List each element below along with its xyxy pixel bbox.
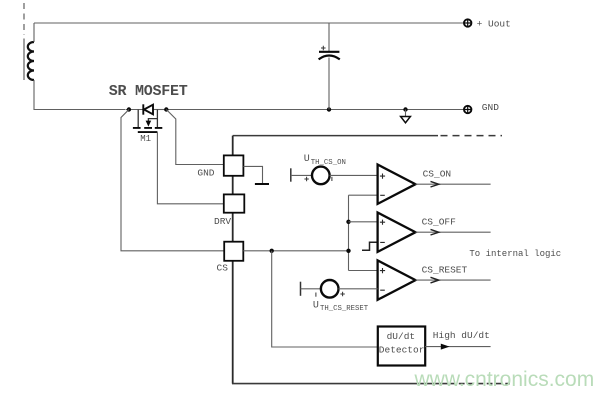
capacitor C bottom plate (curved) — [319, 56, 340, 60]
transistor M1 drain lead — [137, 110, 139, 128]
svg-text:U: U — [304, 154, 310, 165]
svg-text:+ Uout: + Uout — [477, 19, 511, 30]
svg-text:TH_CS_RESET: TH_CS_RESET — [320, 305, 369, 313]
source V_TH_CS_RESET left bar — [300, 282, 302, 296]
svg-text:GND: GND — [482, 102, 499, 113]
ground tick near GND pin — [243, 166, 262, 183]
transistor M1 gate bar — [138, 131, 158, 133]
node cap dot — [327, 107, 331, 111]
wire bus to CS_OFF + input — [349, 221, 378, 223]
op-amp CS_RESET comparator — [378, 260, 416, 299]
wire bus vertical — [348, 195, 350, 270]
svg-text:CS_OFF: CS_OFF — [422, 217, 457, 228]
node drain dot — [127, 107, 131, 111]
wire CS branch down to detector — [272, 251, 378, 347]
svg-text:CS_RESET: CS_RESET — [422, 264, 468, 275]
IC boundary top dashed continuation — [441, 135, 503, 137]
wire CS_ON output — [416, 183, 491, 185]
step symbol at CS_OFF - input — [362, 242, 378, 250]
svg-text:Detector: Detector — [379, 345, 425, 356]
wire bar to reset source circle — [301, 288, 321, 290]
transistor M1 source lead — [156, 110, 158, 128]
op-amp CS_ON comparator — [378, 165, 416, 204]
wire detector output — [425, 346, 490, 348]
wire CS pin to bus — [243, 250, 348, 252]
capacitor C top plate — [319, 51, 339, 53]
wire source to GND pin — [166, 110, 224, 165]
transistor M1 body hook — [148, 119, 157, 123]
svg-text:U: U — [313, 300, 319, 311]
wire bus to CS_RESET + input — [349, 270, 378, 272]
terminal GND — [464, 106, 471, 113]
IC boundary bottom line — [232, 383, 448, 385]
wire rail between diode and right dot — [153, 109, 167, 111]
source V_TH_CS_ON plus — [304, 177, 308, 181]
node source dot — [164, 107, 168, 111]
svg-text:High dU/dt: High dU/dt — [433, 330, 490, 341]
node bus dot lower — [346, 249, 350, 253]
transistor M1 body arrow — [146, 121, 152, 127]
watermark www.cntronics.com — [415, 368, 595, 392]
transformer core line — [23, 39, 25, 81]
node CS branch dot — [270, 249, 274, 253]
wire top-left vertical (coil to top rail) — [33, 23, 35, 42]
svg-text:SR MOSFET: SR MOSFET — [109, 83, 188, 100]
IC pin chain vertical — [232, 136, 234, 384]
inductor L secondary winding — [28, 42, 34, 80]
wire bus to CS_ON - input — [349, 194, 378, 196]
wire CS_RESET output — [416, 279, 491, 281]
svg-text:dU/dt: dU/dt — [387, 331, 416, 342]
pin box DRV — [224, 194, 245, 212]
transistor M1 channel contacts — [133, 127, 162, 129]
arrow detector output — [441, 344, 450, 350]
capacitor C plus sign — [321, 46, 326, 51]
svg-text:To internal logic: To internal logic — [469, 249, 561, 259]
transformer core dashed continuation — [23, 3, 25, 35]
diode D body (triangle) — [144, 105, 153, 115]
diode D body (cathode bar) — [142, 104, 144, 114]
ground symbol on rail — [405, 110, 407, 117]
capacitor C wire lower — [328, 58, 330, 110]
wire bar to source circle — [291, 174, 311, 176]
wire source to CS_ON + input — [330, 174, 378, 176]
wire top rail to Vout — [34, 22, 464, 24]
source V_TH_CS_RESET minus tick — [315, 293, 317, 297]
terminal + Vout — [464, 19, 471, 26]
pin box CS — [224, 242, 243, 261]
source V_TH_CS_RESET plus — [340, 292, 344, 296]
svg-text:CS_ON: CS_ON — [423, 168, 452, 179]
pin box GND — [224, 155, 244, 175]
wire drain to CS pin — [121, 110, 224, 251]
source V_TH_CS_RESET circle — [321, 280, 339, 298]
node gnd-symbol dot — [403, 107, 407, 111]
op-amp CS_OFF comparator — [378, 213, 416, 252]
svg-text:DRV: DRV — [214, 216, 231, 227]
IC boundary bottom dashed continuation — [450, 383, 511, 385]
node bus dot upper — [346, 220, 350, 224]
source V_TH_CS_ON circle — [312, 167, 330, 185]
wire coil bottom to SR rail — [34, 80, 126, 110]
arrow CS_RESET output — [431, 277, 439, 283]
IC boundary top line — [233, 135, 438, 137]
svg-text:CS: CS — [217, 263, 229, 274]
capacitor C wire upper — [328, 23, 330, 51]
arrow CS_OFF output — [431, 229, 439, 235]
wire rail between left dot and diode — [126, 109, 143, 111]
svg-text:TH_CS_ON: TH_CS_ON — [311, 159, 346, 167]
source V_TH_CS_ON minus tick — [331, 177, 333, 181]
wire SR rail right segment — [166, 109, 463, 111]
wire reset source to CS_RESET - input — [339, 288, 378, 290]
arrow CS_ON output — [431, 181, 439, 187]
svg-text:M1: M1 — [140, 134, 151, 144]
wire CS_OFF output — [416, 231, 491, 233]
svg-text:GND: GND — [197, 168, 214, 179]
wire gate to DRV pin — [157, 132, 223, 204]
dV/dt detector box — [378, 327, 425, 366]
source V_TH_CS_ON left bar — [290, 168, 292, 181]
